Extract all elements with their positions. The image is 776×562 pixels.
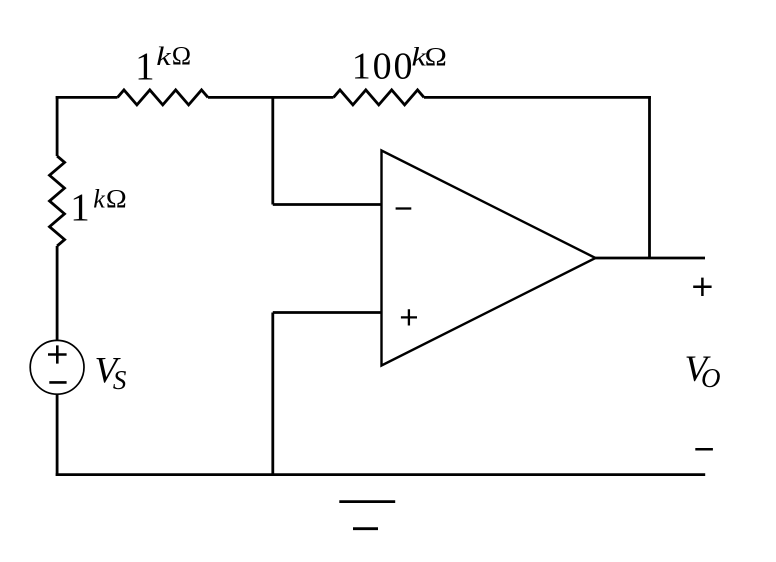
voltage source VS plus terminal mark <box>48 345 67 363</box>
resistor R3 1kOhm (left vertical) <box>50 156 65 246</box>
value label 1kOhm for R1 <box>135 42 191 88</box>
svg-text:1: 1 <box>135 45 155 88</box>
wire: top-left horizontal segment from left corner to R1 <box>56 96 118 99</box>
svg-text:S: S <box>113 365 127 395</box>
svg-text:Ω: Ω <box>172 42 191 71</box>
wire: non-inverting branch vertical down to bottom rail <box>271 313 274 477</box>
value label 100kOhm for R2 <box>352 43 447 87</box>
voltage source VS minus terminal mark <box>49 381 66 384</box>
wire: inverting branch horizontal into op-amp minus input <box>273 203 382 206</box>
label VO <box>685 349 721 393</box>
ground symbol (two bars) <box>339 502 395 529</box>
op-amp non-inverting input plus sign <box>401 309 417 325</box>
wire: feedback vertical segment down to output node <box>648 96 651 258</box>
wire: top horizontal segment from R2 to feedback corner <box>424 96 651 99</box>
output polarity minus label <box>695 448 713 451</box>
voltage source VS circle <box>30 340 84 394</box>
wire: top horizontal segment between R1 and R2 <box>208 96 334 99</box>
value label 1kOhm for R3 <box>70 184 126 229</box>
svg-text:1: 1 <box>70 186 90 229</box>
svg-text:k: k <box>93 185 105 214</box>
svg-text:100: 100 <box>352 45 415 87</box>
op-amp inverting input minus sign <box>396 207 412 209</box>
output polarity plus label <box>693 278 711 296</box>
resistor R2 100kOhm (feedback) <box>334 90 425 105</box>
wire: inverting branch vertical from top net node down <box>271 96 274 205</box>
resistor R1 1kOhm (top series) <box>118 90 209 105</box>
svg-text:O: O <box>701 363 721 393</box>
wire: output horizontal segment from op-amp apex <box>596 257 706 260</box>
svg-text:Ω: Ω <box>425 43 447 72</box>
wire: bottom ground rail <box>56 473 706 476</box>
svg-text:k: k <box>156 43 171 71</box>
wire: non-inverting branch horizontal into op-amp plus input <box>273 311 382 314</box>
wire: left vertical segment below VS to bottom rail <box>56 394 59 476</box>
wire: left vertical segment between R3 and source VS <box>56 246 59 341</box>
label VS <box>95 351 127 395</box>
wire: left vertical segment from top corner to R3 <box>56 96 59 156</box>
op-amp U1 triangle body <box>382 151 596 366</box>
svg-text:Ω: Ω <box>106 184 127 213</box>
